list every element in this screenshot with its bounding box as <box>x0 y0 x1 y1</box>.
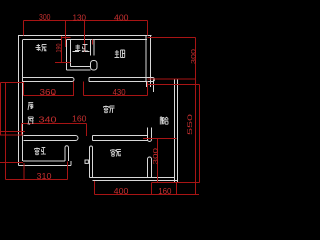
svg-text:400: 400 <box>114 13 129 22</box>
svg-text:300: 300 <box>39 13 51 22</box>
svg-text:300: 300 <box>153 147 160 164</box>
svg-text:160: 160 <box>72 114 87 123</box>
svg-text:310: 310 <box>37 172 53 181</box>
svg-text:360: 360 <box>40 88 57 97</box>
svg-text:300: 300 <box>191 48 198 64</box>
svg-text:130: 130 <box>73 13 87 22</box>
svg-text:340: 340 <box>39 115 58 124</box>
svg-text:160: 160 <box>158 187 172 196</box>
svg-text:400: 400 <box>114 187 129 196</box>
svg-text:190: 190 <box>55 43 62 52</box>
svg-text:430: 430 <box>113 88 127 97</box>
svg-text:550: 550 <box>187 113 194 135</box>
